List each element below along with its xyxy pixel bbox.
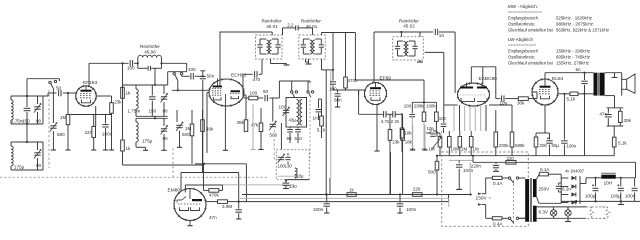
svg-text:1k: 1k: [126, 91, 132, 96]
junction: [154, 84, 156, 86]
svg-text:220: 220: [507, 156, 515, 161]
svg-text:580: 580: [57, 132, 65, 137]
LW osc coil 118µ: [295, 168, 297, 178]
gray vertical wires agc: [412, 125, 414, 148]
dial lamp 1: [550, 210, 556, 216]
main B+ top bus segment 3: [374, 31, 433, 33]
svg-text:220: 220: [413, 187, 421, 192]
LW oscillator dashed box: [276, 150, 309, 180]
svg-text:50n: 50n: [207, 74, 215, 79]
svg-text:===========: ===========: [508, 44, 536, 49]
svg-text:4.7n: 4.7n: [381, 119, 390, 124]
resistor 23k screen: [96, 95, 112, 97]
wire bottom bus ech81: [191, 147, 193, 164]
svg-text:68n: 68n: [334, 98, 342, 103]
ground: [189, 224, 191, 226]
resistor 47k: [259, 123, 263, 132]
capacitor 100: [181, 75, 183, 77]
svg-text:47n: 47n: [209, 215, 217, 220]
power unit dashed box: [442, 152, 529, 226]
svg-text:90: 90: [36, 163, 42, 168]
main B+ top bus segment 1: [220, 31, 272, 33]
svg-text:0.4A: 0.4A: [493, 181, 503, 186]
terminal arrow on wire: [573, 200, 577, 203]
svg-text:10n: 10n: [427, 126, 435, 131]
power transformer secondary heater: [533, 206, 537, 222]
svg-text:1k: 1k: [126, 146, 132, 151]
capacitor 10n det1: [443, 105, 445, 123]
resistor 1M osc grid: [190, 124, 194, 136]
resistor 220 bus: [412, 193, 422, 197]
svg-text:EM80: EM80: [168, 188, 181, 194]
heater ground wire: [561, 200, 640, 202]
svg-text:175µ: 175µ: [142, 139, 153, 144]
resistor 39k triode: [244, 120, 248, 132]
svg-text:6.3V: 6.3V: [539, 210, 549, 215]
capacitor 5n: [583, 72, 585, 74]
capacitor 10: [434, 29, 436, 35]
oscillator box MW: [286, 98, 307, 128]
ground below can2: [308, 59, 310, 64]
svg-text:200: 200: [540, 143, 548, 148]
svg-text:50: 50: [263, 89, 269, 94]
resistor 5,1k feedback: [613, 126, 615, 137]
resistor 18k: [400, 128, 404, 138]
svg-text:0.1A: 0.1A: [540, 167, 550, 172]
ground: [456, 188, 462, 190]
svg-text:563kHz, 922kHz & 1571kHz: 563kHz, 922kHz & 1571kHz: [556, 28, 610, 34]
svg-text:100n: 100n: [406, 207, 417, 212]
svg-text:43µ: 43µ: [289, 118, 297, 123]
cathode network: [544, 105, 546, 133]
fuse 0.4A upper: [486, 177, 493, 179]
wire em80 plate: [206, 201, 218, 203]
IF1 primary cap: [259, 39, 261, 44]
wire osc top: [279, 80, 310, 82]
ground: [238, 217, 240, 219]
svg-text:100: 100: [279, 105, 287, 110]
wire em80 grid loop: [184, 185, 186, 193]
svg-text:470k: 470k: [348, 78, 359, 83]
wire right edge of loops: [167, 72, 169, 85]
capacitor 100 det: [411, 102, 413, 113]
capacitor 150: [151, 85, 153, 96]
resistor 500: [436, 131, 438, 137]
B+ rail B: [473, 161, 636, 163]
svg-text:1n: 1n: [313, 116, 319, 121]
capacitor 510 pad: [297, 127, 299, 128]
variable capacitor 90: [37, 96, 39, 104]
wire triode plate box: [470, 67, 472, 84]
IF2 primary cap: [302, 39, 304, 44]
svg-text:Reinhöfer: Reinhöfer: [301, 19, 321, 24]
capacitor 470 feedback: [243, 73, 253, 75]
svg-text:100: 100: [188, 67, 196, 72]
resistor 220: [92, 126, 96, 137]
IF can dashed box 45,01 #2: [299, 35, 326, 59]
svg-text:Oszillatorkreis:: Oszillatorkreis:: [508, 22, 535, 28]
svg-text:45,06: 45,06: [144, 49, 156, 54]
svg-text:5,1k: 5,1k: [618, 141, 627, 146]
svg-text:150kHz - 290kHz: 150kHz - 290kHz: [556, 49, 591, 55]
wires below EABC80: [453, 106, 455, 131]
svg-text:100: 100: [127, 66, 135, 71]
switch link dash mid: [309, 100, 311, 160]
IF1 coils: [267, 40, 269, 54]
wire 50n down / AGC vertical: [202, 80, 204, 165]
ground below can1: [270, 59, 272, 64]
svg-text:18k: 18k: [405, 131, 413, 136]
svg-text:220: 220: [85, 130, 93, 135]
band switch S1a: [54, 80, 56, 82]
svg-text:90: 90: [163, 109, 169, 114]
svg-text:Oszillatorkreis:: Oszillatorkreis:: [508, 55, 535, 61]
svg-text:0.4A: 0.4A: [493, 222, 503, 227]
svg-text:3.9M: 3.9M: [222, 204, 232, 209]
wire can2 out: [321, 59, 323, 70]
svg-text:10H: 10H: [604, 181, 613, 187]
resistor 3.9M: [218, 200, 228, 204]
svg-text:100: 100: [250, 91, 258, 96]
band switch dashed link: [172, 148, 174, 177]
power transformer secondary HV: [533, 179, 537, 197]
svg-text:175µ: 175µ: [14, 165, 25, 170]
variable capacitor 90 LW: [163, 118, 165, 126]
capacitor 6.2n: [560, 174, 562, 203]
svg-text:470k: 470k: [209, 193, 220, 198]
IF can dashed box 45,01 #1: [256, 35, 283, 59]
ground at secondary: [612, 77, 618, 79]
svg-text:500: 500: [182, 132, 190, 137]
capacitor 100n bus 1: [326, 193, 328, 195]
tube EM80: [174, 189, 206, 221]
svg-text:510: 510: [295, 136, 303, 141]
resistor 1M: [458, 137, 462, 148]
wire em80 B+ to bus: [238, 201, 240, 203]
svg-text:1M: 1M: [185, 126, 192, 131]
trimmer capacitor 500: [176, 110, 178, 122]
svg-text:155kHz, 278kHz: 155kHz, 278kHz: [556, 61, 590, 67]
resistor 1k screen feed: [122, 63, 124, 87]
IF1 secondary cap: [277, 39, 279, 44]
wire b+ right: [439, 31, 455, 33]
capacitor 440: [285, 179, 287, 181]
power switch lower: [508, 217, 510, 219]
antenna coil L1 loop: [11, 95, 43, 97]
osc switch S2: [291, 81, 293, 91]
svg-text:6.2n: 6.2n: [562, 187, 571, 192]
wire switch row: [168, 71, 187, 73]
ground: [224, 147, 226, 150]
osc wire down: [280, 123, 282, 150]
svg-text:10: 10: [439, 33, 445, 38]
svg-text:45 02: 45 02: [403, 24, 415, 29]
svg-text:100n: 100n: [625, 194, 636, 199]
svg-text:1k: 1k: [349, 188, 354, 193]
IF3 secondary cap: [414, 41, 416, 46]
svg-text:1M: 1M: [473, 147, 479, 152]
ground: [337, 104, 339, 107]
svg-text:Reinhöfer: Reinhöfer: [262, 19, 282, 24]
resistor 200k det: [422, 112, 426, 121]
svg-text:Gleichlauf einstellen bei: Gleichlauf einstellen bei: [508, 61, 553, 67]
svg-text:100k: 100k: [426, 104, 436, 109]
svg-text:23k: 23k: [392, 140, 400, 145]
svg-text:100n: 100n: [463, 168, 474, 173]
pot dashed link: [441, 131, 443, 152]
connector dashed 2: [592, 206, 606, 208]
wire grid leak: [67, 92, 69, 94]
wire diode plate: [482, 67, 484, 84]
output transformer secondary: [600, 73, 605, 96]
variable capacitor 90 LW: [37, 142, 39, 150]
capacitor 90 pad: [289, 127, 291, 128]
svg-text:Empfangsbereich: Empfangsbereich: [508, 49, 538, 55]
fuse 0.1A: [537, 174, 540, 179]
volume potentiometer 1M: [438, 137, 442, 148]
ground: [105, 147, 107, 150]
trimmer capacitor 100: [283, 109, 289, 111]
resistor 10M: [448, 137, 452, 148]
resistor 1M: [469, 137, 473, 148]
ground: [399, 211, 401, 213]
IF3 primary cap: [397, 41, 399, 46]
resistor 100k det: [435, 102, 437, 112]
resistor 470k: [344, 77, 348, 88]
resistor 220 rail: [506, 161, 516, 165]
wire choke out up: [635, 162, 637, 178]
B+ bus bottom: [242, 194, 471, 196]
svg-text:100µ: 100µ: [585, 194, 596, 199]
screen feed wire: [355, 79, 424, 81]
capacitor 68n: [335, 93, 341, 95]
svg-text:250V: 250V: [539, 187, 551, 192]
wire B+ drops: [332, 33, 334, 70]
IF can dashed box 45,02: [393, 37, 424, 60]
tube EF183: [76, 86, 96, 106]
resistor 470k: [209, 189, 219, 193]
svg-text:90: 90: [287, 136, 292, 141]
svg-text:50µ: 50µ: [552, 143, 560, 148]
tube EL84: [532, 79, 558, 105]
wire plate to OT: [544, 73, 546, 79]
wire can3 out to detector: [425, 51, 444, 53]
power transformer primary: [525, 179, 529, 222]
svg-text:MW - Abgleich:: MW - Abgleich:: [508, 4, 538, 10]
wire to band switch: [162, 62, 187, 64]
svg-text:5n: 5n: [576, 67, 582, 72]
svg-text:90: 90: [163, 136, 169, 141]
resistor 200: [534, 137, 538, 147]
gray heater wire: [223, 184, 295, 186]
resistor 5.1k osc: [320, 116, 324, 126]
wire can1 pin: [261, 59, 263, 74]
feedback RC 47n 30k: [607, 107, 624, 109]
svg-text:ECH81: ECH81: [231, 73, 247, 79]
svg-text:2,2: 2,2: [287, 23, 294, 28]
resistor 23k: [389, 114, 391, 129]
svg-text:980kHz - 2075kHz: 980kHz - 2075kHz: [556, 22, 594, 28]
oscillator coil 43µ: [297, 100, 299, 126]
svg-text:==============: ==============: [508, 11, 542, 16]
speaker to box wire: [621, 89, 623, 96]
wire LW box bottom: [287, 179, 309, 181]
wire agc line to EM80: [123, 164, 204, 166]
wire primary connects: [519, 177, 526, 179]
wire to mixer grid: [172, 89, 209, 91]
core lines: [597, 73, 599, 96]
rectifier output rail: [579, 176, 581, 204]
tube EF89: [365, 83, 387, 105]
svg-text:1.75m: 1.75m: [11, 119, 24, 124]
ground heater: [620, 201, 622, 204]
IF2 secondary cap: [320, 39, 322, 44]
svg-text:4x 1N4007: 4x 1N4007: [565, 169, 584, 174]
capacitor 100n tone: [449, 159, 473, 161]
detector wire: [412, 101, 436, 103]
resistor 200k: [494, 132, 498, 147]
connector dashed 1: [586, 207, 594, 218]
svg-text:EF89: EF89: [380, 76, 392, 82]
resistor 1M: [66, 115, 70, 125]
svg-text:45 01: 45 01: [266, 24, 278, 29]
svg-text:EF183: EF183: [83, 80, 97, 86]
capacitor 50n to ground: [200, 70, 205, 72]
wire anode to IF1: [88, 63, 90, 86]
capacitor 47n: [238, 202, 240, 209]
resistor 5,1k screen: [558, 93, 570, 95]
capacitor 130: [287, 153, 289, 156]
capacitor 100 series: [129, 60, 131, 66]
mains terminal N: [478, 203, 482, 205]
wire screen bus: [123, 84, 168, 86]
tube ECH81: [209, 79, 244, 106]
svg-text:Reinhöfer: Reinhöfer: [399, 18, 419, 23]
tuned circuit MW: coil 1.75m: [135, 85, 137, 89]
main B+ top bus segment 2: [322, 32, 356, 34]
svg-text:5,1k: 5,1k: [567, 97, 576, 102]
gray wire right: [330, 70, 332, 178]
dial lamp 2: [565, 210, 571, 216]
HV secondary lower wire: [537, 197, 539, 203]
capacitor 1n: [318, 99, 320, 108]
capacitor 100n cathode: [105, 115, 107, 124]
capacitor 10n coupling: [496, 98, 501, 100]
resistor 100 triode anode: [244, 97, 249, 99]
ground: [163, 147, 165, 150]
svg-text:Empfangsbereich: Empfangsbereich: [508, 16, 538, 22]
ground: [111, 147, 113, 150]
ground: [145, 147, 147, 150]
svg-text:Reinhöfer: Reinhöfer: [140, 44, 160, 49]
capacitor 2,2: [282, 28, 284, 35]
tuned circuit LW: coil 175µ: [135, 118, 137, 122]
svg-text:220n: 220n: [471, 164, 482, 169]
svg-text:525kHz - 1620kHz: 525kHz - 1620kHz: [556, 16, 593, 22]
ground: [326, 211, 328, 213]
capacitor 100µ filter 1: [594, 177, 596, 179]
IF coil 45,06 with parallel cap: [138, 55, 161, 57]
gray feed: [469, 162, 471, 194]
svg-text:23k: 23k: [114, 100, 122, 105]
junction: [121, 62, 123, 64]
ground: [93, 147, 95, 150]
svg-text:18k: 18k: [405, 140, 413, 145]
speaker: [622, 79, 627, 89]
capacitor 50 osc coupling: [258, 97, 263, 99]
svg-text:230V ~: 230V ~: [476, 196, 492, 202]
variable capacitor 90: [163, 85, 165, 94]
tube EABC80: [458, 83, 490, 106]
resistor 30k grid: [518, 97, 528, 101]
capacitor 100n fb: [563, 94, 565, 140]
junction: [563, 93, 565, 95]
svg-text:100: 100: [329, 87, 337, 92]
gray heater stub: [252, 104, 254, 150]
svg-text:200k: 200k: [414, 104, 424, 109]
wire grid input: [43, 95, 48, 97]
svg-text:500: 500: [428, 170, 436, 175]
fuse 0.4A lower: [486, 217, 493, 219]
capacitor 100n filter: [634, 178, 636, 187]
svg-text:47k: 47k: [251, 123, 259, 128]
resistor 580k: [510, 132, 514, 147]
choke 10H: [586, 177, 601, 179]
coupling caps 4.7n 2.2n: [358, 90, 360, 114]
svg-text:10n: 10n: [439, 116, 447, 121]
wire can1 top pin: [271, 32, 273, 35]
wire antenna to switch: [26, 79, 28, 96]
chassis dashed line: [0, 176, 267, 178]
resistor 39k: [201, 120, 205, 132]
trimmer capacitor 100 LW: [278, 156, 284, 158]
wire grid: [532, 91, 537, 93]
svg-text:1M: 1M: [461, 147, 467, 152]
ground: [67, 147, 69, 150]
svg-text:1M: 1M: [60, 115, 67, 120]
ground: [52, 147, 54, 150]
switch shaft dash line: [48, 90, 50, 168]
svg-text:LW-Abgleich: LW-Abgleich: [508, 37, 533, 43]
resistor 1k agc: [122, 98, 124, 140]
wire grid from IF1 top: [219, 32, 221, 85]
svg-text:200k: 200k: [499, 143, 509, 148]
svg-text:EABC80: EABC80: [479, 76, 498, 82]
wire taps up: [390, 152, 392, 195]
svg-text:90: 90: [36, 119, 42, 124]
svg-text:100n: 100n: [567, 144, 577, 149]
resistor 1k bus: [347, 193, 356, 197]
wire em80 cathode: [189, 221, 191, 224]
capacitor 10n det: [426, 132, 431, 134]
capacitor 50µ: [549, 133, 551, 140]
wire can3 pins: [400, 32, 402, 37]
switch link dashes: [513, 180, 515, 223]
capacitor 100n bus 2: [399, 193, 401, 195]
wire tube bottom ground: [224, 106, 226, 147]
svg-text:580k: 580k: [515, 143, 525, 148]
svg-text:100µ: 100µ: [611, 194, 622, 199]
svg-text:100: 100: [404, 104, 412, 109]
IF3 coils: [404, 42, 406, 57]
svg-text:130: 130: [285, 164, 293, 169]
ground lamp: [567, 218, 569, 221]
rectifier diodes: [561, 177, 568, 179]
svg-text:30k: 30k: [624, 118, 632, 123]
antenna coil L2 loop: [11, 141, 43, 143]
mains terminal L: [478, 193, 482, 195]
output transformer primary: [594, 73, 598, 96]
